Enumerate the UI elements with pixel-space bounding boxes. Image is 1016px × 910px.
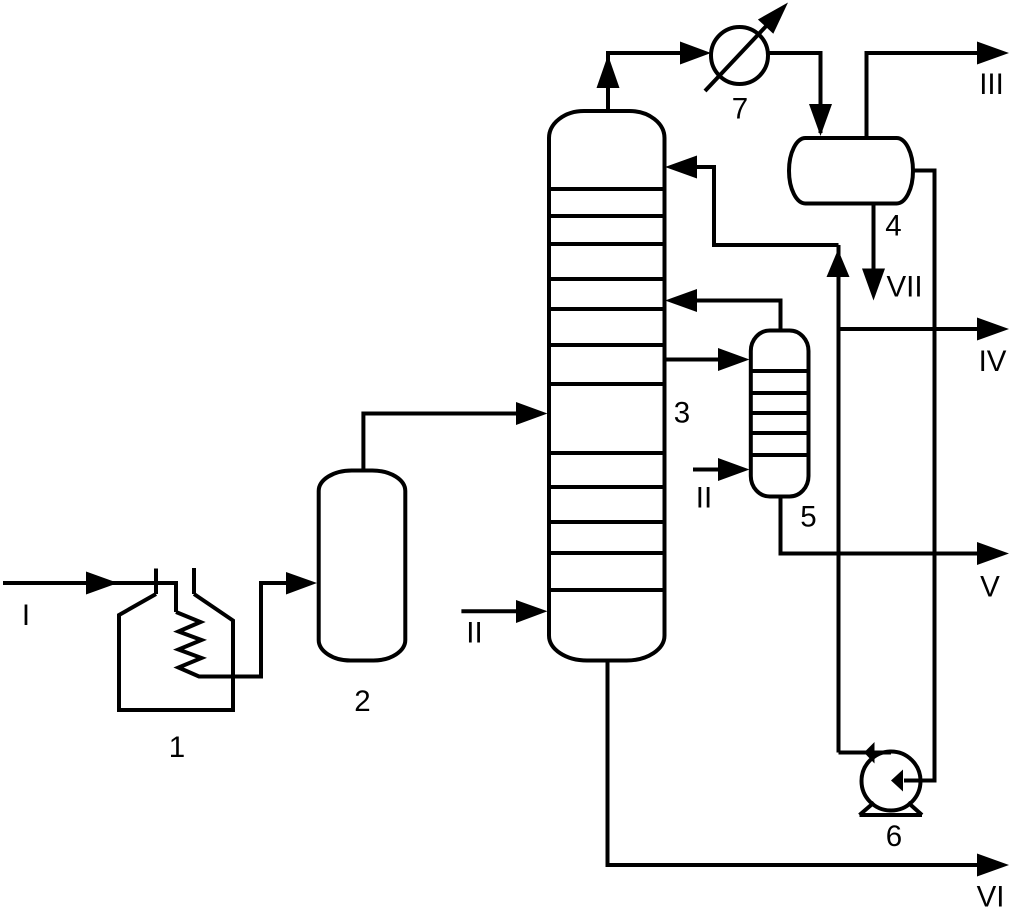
wire reflux return to column top bbox=[694, 167, 839, 245]
column tray 12 bbox=[549, 588, 665, 592]
column tray 7 bbox=[549, 382, 665, 386]
stripper tray 4 bbox=[753, 431, 807, 435]
vessel V2 drum bbox=[319, 471, 406, 661]
svg-text:II: II bbox=[696, 482, 712, 515]
condenser E7 circle bbox=[711, 27, 768, 84]
wire stripper bottoms to stream V bbox=[781, 496, 980, 554]
arrowhead reflux into column top bbox=[665, 156, 697, 179]
furnace coil zigzag bbox=[176, 583, 288, 677]
stripper tray 3 bbox=[753, 411, 807, 415]
furnace stub right bbox=[192, 568, 196, 594]
arrowhead stream II into column bbox=[516, 600, 548, 623]
arrowhead stripper overhead into column bbox=[665, 289, 697, 312]
furnace stub left bbox=[154, 569, 158, 595]
wire stream I feed line into furnace coil bbox=[3, 583, 176, 612]
wire stream VII stub from drum bottom bbox=[872, 203, 876, 270]
column tray 11 bbox=[549, 551, 665, 555]
arrowhead column overhead up bbox=[597, 55, 620, 88]
arrowhead condenser outlet down into drum bbox=[809, 104, 832, 136]
column C3 shell bbox=[549, 111, 665, 661]
svg-text:3: 3 bbox=[674, 397, 690, 430]
arrowhead stream IV bbox=[977, 318, 1009, 341]
arrowhead draw-off into stripper bbox=[718, 348, 750, 371]
wire pump discharge horizontal bbox=[839, 751, 892, 755]
arrowhead riser up bbox=[827, 250, 850, 278]
column tray 3 bbox=[549, 242, 665, 246]
svg-text:4: 4 bbox=[885, 210, 901, 243]
arrowhead vessel 2 overhead into column bbox=[516, 402, 548, 425]
arrowhead stream V bbox=[977, 542, 1009, 565]
wire vessel 2 overhead to column bbox=[363, 414, 518, 472]
wire drum outlet to pump suction bbox=[904, 171, 935, 781]
wire stream IV side draw line bbox=[839, 327, 980, 331]
wire condenser outlet to drum bbox=[768, 53, 821, 133]
column tray 9 bbox=[549, 485, 665, 489]
arrowhead overhead into condenser bbox=[680, 42, 711, 65]
column tray 8 bbox=[549, 451, 665, 455]
column tray 2 bbox=[549, 214, 665, 218]
svg-text:6: 6 bbox=[886, 820, 902, 853]
arrowhead stream VI bbox=[977, 854, 1009, 877]
wire stream II feed into stripper bbox=[693, 468, 719, 472]
column tray 6 bbox=[549, 343, 665, 347]
column tray 1 bbox=[549, 187, 665, 191]
arrowhead stream II into stripper bbox=[718, 458, 750, 481]
pump P6 stand bbox=[860, 803, 923, 816]
wire stripper overhead return to column bbox=[694, 301, 781, 333]
svg-text:III: III bbox=[979, 68, 1004, 101]
arrowhead condenser utility diagonal bbox=[758, 3, 788, 34]
svg-text:I: I bbox=[22, 599, 30, 632]
column tray 5 bbox=[549, 307, 665, 311]
svg-text:7: 7 bbox=[732, 93, 748, 126]
stripper C5 shell bbox=[751, 331, 809, 497]
arrowhead stream VII down bbox=[862, 269, 885, 301]
stripper tray 2 bbox=[753, 391, 807, 395]
wire stream II feed into column bbox=[461, 609, 518, 613]
stripper tray 5 bbox=[753, 453, 807, 457]
wire pump discharge riser bbox=[837, 245, 841, 753]
svg-text:IV: IV bbox=[979, 345, 1007, 378]
arrowhead stream III bbox=[977, 42, 1009, 65]
column tray 10 bbox=[549, 520, 665, 524]
svg-text:2: 2 bbox=[354, 685, 370, 718]
wire column overhead vapor line bbox=[608, 53, 682, 112]
svg-text:1: 1 bbox=[169, 731, 185, 764]
svg-text:II: II bbox=[466, 617, 482, 650]
pump P6 casing circle bbox=[862, 752, 921, 811]
wire column draw-off to stripper bbox=[665, 358, 720, 362]
condenser E7 diagonal utility line bbox=[705, 22, 770, 91]
svg-text:VII: VII bbox=[886, 271, 922, 304]
arrowhead furnace outlet into vessel 2 bbox=[286, 572, 317, 595]
wire stream III distillate line bbox=[867, 53, 980, 139]
svg-text:VI: VI bbox=[977, 881, 1005, 910]
stripper tray 1 bbox=[753, 369, 807, 373]
svg-text:5: 5 bbox=[800, 501, 816, 534]
furnace F1 body outline bbox=[119, 594, 233, 710]
arrowhead pump suction bbox=[891, 770, 903, 792]
wire column bottoms to stream VI bbox=[608, 659, 980, 865]
svg-text:V: V bbox=[980, 571, 1000, 604]
drum D4 reflux accumulator bbox=[789, 138, 913, 204]
column tray 4 bbox=[549, 277, 665, 281]
arrowhead stream I into furnace bbox=[86, 572, 118, 595]
arrowhead pump discharge bbox=[864, 742, 875, 764]
